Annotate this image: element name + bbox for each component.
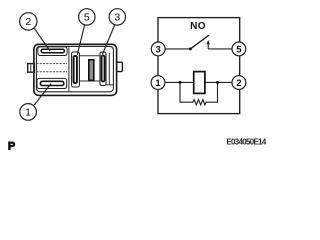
callout circle 3	[109, 9, 125, 25]
relay body inner outline	[36, 46, 113, 91]
terminal 3 slot inner blade	[102, 56, 105, 82]
relay right mounting tab	[117, 62, 123, 71]
svg-text:3: 3	[114, 12, 120, 24]
wire coil to node 2	[205, 81, 233, 83]
relay recess step upper line	[79, 55, 100, 57]
node circle 5	[232, 42, 246, 56]
svg-text:5: 5	[84, 12, 90, 24]
svg-text:2: 2	[25, 16, 31, 28]
terminal 2 slot outer	[38, 47, 67, 56]
svg-text:1: 1	[25, 107, 31, 119]
callout circle 1	[20, 104, 37, 121]
wire switch to node 5	[208, 48, 232, 50]
relay recess right vertical line	[108, 53, 110, 85]
junction dot left of coil	[179, 81, 182, 84]
svg-text:3: 3	[156, 44, 161, 55]
schematic outer box	[158, 18, 240, 114]
leader line callout 5	[77, 25, 84, 55]
relay cover seam line lower (from left tab)	[36, 71, 67, 73]
relay center dark bar	[89, 60, 94, 81]
terminal 3 slot outer	[100, 52, 106, 86]
junction dot right of coil	[216, 81, 219, 84]
svg-text:1: 1	[155, 78, 161, 89]
switch fixed contact arrowhead	[207, 40, 210, 44]
relay body outer outline	[34, 44, 117, 95]
leader line callout 2	[34, 28, 50, 51]
node circle 3	[151, 42, 165, 56]
relay recess step lower outline	[79, 81, 113, 85]
svg-text:2: 2	[236, 78, 241, 89]
relay cover seam line upper (from left tab)	[36, 63, 67, 65]
switch fixed contact arrow shaft	[207, 44, 209, 49]
terminal 5 slot outer	[72, 52, 80, 87]
terminal 5 slot inner blade	[74, 56, 77, 83]
switch pivot junction dot	[189, 47, 192, 50]
svg-text:NO: NO	[190, 21, 206, 32]
svg-text:E034050E14: E034050E14	[226, 137, 267, 146]
leader line callout 3	[102, 25, 114, 55]
leader line callout 1	[34, 84, 51, 106]
switch blade (NO contact)	[190, 35, 209, 49]
relay left mounting tab	[28, 64, 35, 73]
resistor R (parallel) zigzag loop	[180, 82, 218, 104]
node circle 1	[151, 76, 165, 90]
relay cover divider line	[68, 48, 70, 92]
svg-text:5: 5	[236, 44, 242, 55]
node circle 2	[232, 76, 246, 90]
terminal 1 slot inner blade	[40, 81, 63, 85]
wire node 3 to switch pivot	[165, 48, 191, 50]
wire node 1 to coil	[165, 81, 194, 83]
svg-text:P: P	[8, 141, 15, 153]
callout circle 2	[20, 13, 37, 30]
terminal 2 slot inner blade	[41, 49, 64, 53]
terminal 1 slot outer	[37, 78, 67, 88]
relay coil box	[194, 72, 205, 94]
callout circle 5	[79, 9, 95, 25]
